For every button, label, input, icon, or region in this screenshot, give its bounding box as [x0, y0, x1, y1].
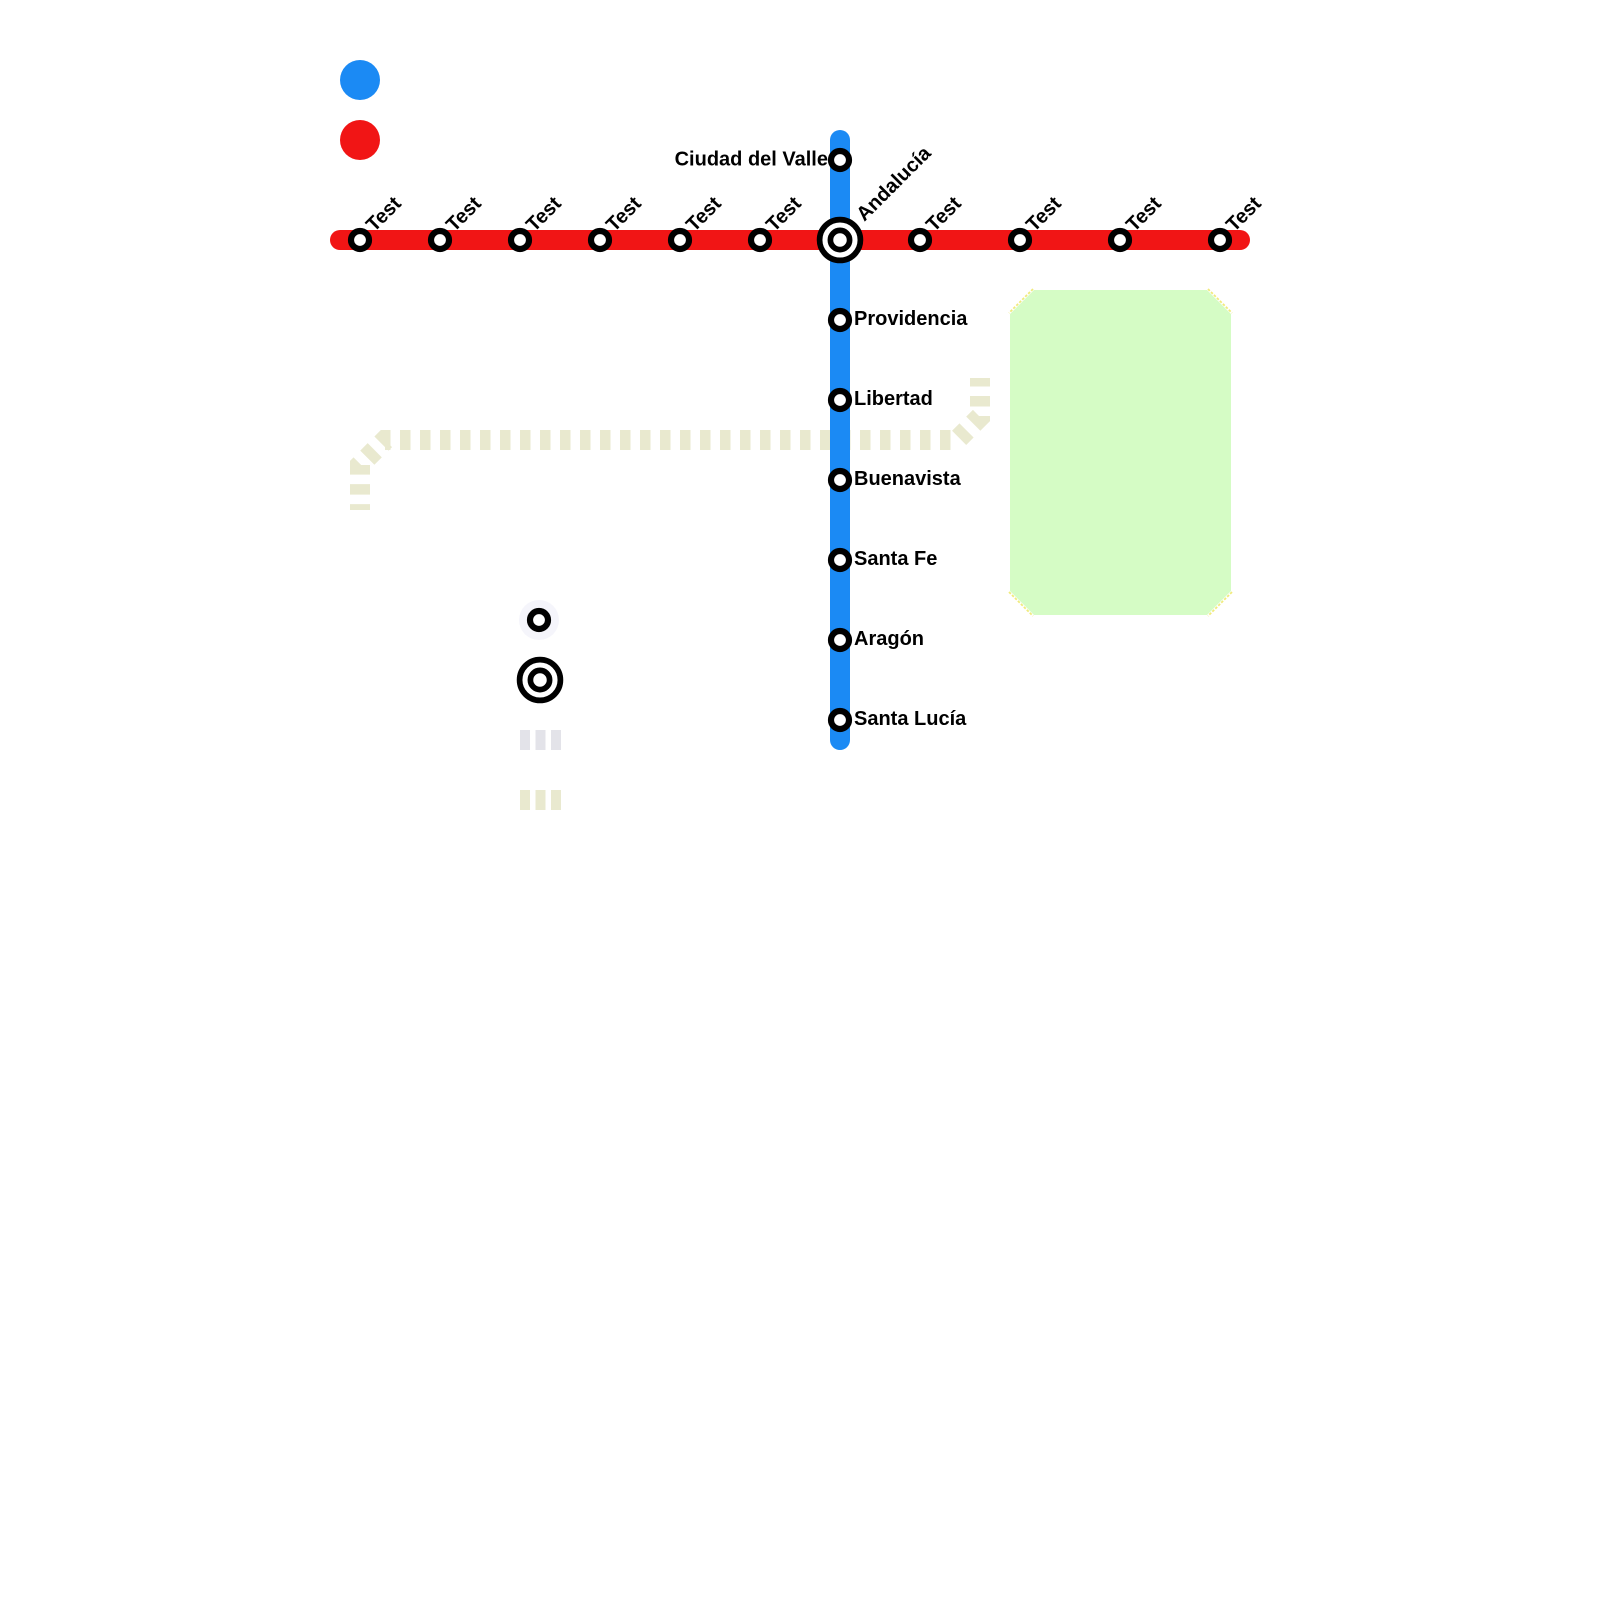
red line stations — [351, 231, 1229, 249]
station Santa Fe — [831, 551, 849, 569]
park (green area) — [1009, 289, 1232, 616]
station Test 1 — [351, 231, 369, 249]
svg-text:Ciudad del Valle: Ciudad del Valle — [675, 148, 828, 170]
legend grey dashed sample — [520, 730, 561, 750]
station Test 3 — [511, 231, 529, 249]
svg-text:Aragón: Aragón — [854, 628, 924, 650]
svg-text:Santa Fe: Santa Fe — [854, 548, 937, 570]
station Buenavista — [831, 471, 849, 489]
station Test 6 — [751, 231, 769, 249]
station Test 4 — [591, 231, 609, 249]
station Providencia — [831, 311, 849, 329]
construction dashed line (beige) — [360, 378, 980, 510]
station Test 9 — [1111, 231, 1129, 249]
station Test 7 — [911, 231, 929, 249]
legend beige dashed sample — [520, 790, 561, 810]
svg-text:Providencia: Providencia — [854, 308, 968, 330]
blue line L1 — [830, 140, 850, 740]
legend station sample with halo — [519, 600, 559, 640]
station Santa Lucia — [831, 711, 849, 729]
svg-text:Libertad: Libertad — [854, 388, 933, 410]
interchange Andalucia — [820, 220, 861, 261]
station Ciudad del Valle — [831, 151, 849, 169]
station Test 8 — [1011, 231, 1029, 249]
legend blue dot — [340, 60, 380, 100]
station Libertad — [831, 391, 849, 409]
legend interchange sample — [520, 660, 561, 701]
station Test 2 — [431, 231, 449, 249]
blue line stations — [831, 151, 849, 729]
labels: rotated Test labels on red line — [362, 192, 1266, 236]
legend red dot — [340, 120, 380, 160]
red line L2 — [340, 230, 1240, 250]
svg-text:Buenavista: Buenavista — [854, 468, 962, 490]
labels blue line — [854, 308, 968, 730]
station Aragon — [831, 631, 849, 649]
svg-text:Santa Lucía: Santa Lucía — [854, 708, 967, 730]
station Test 5 — [671, 231, 689, 249]
station Test 10 — [1211, 231, 1229, 249]
